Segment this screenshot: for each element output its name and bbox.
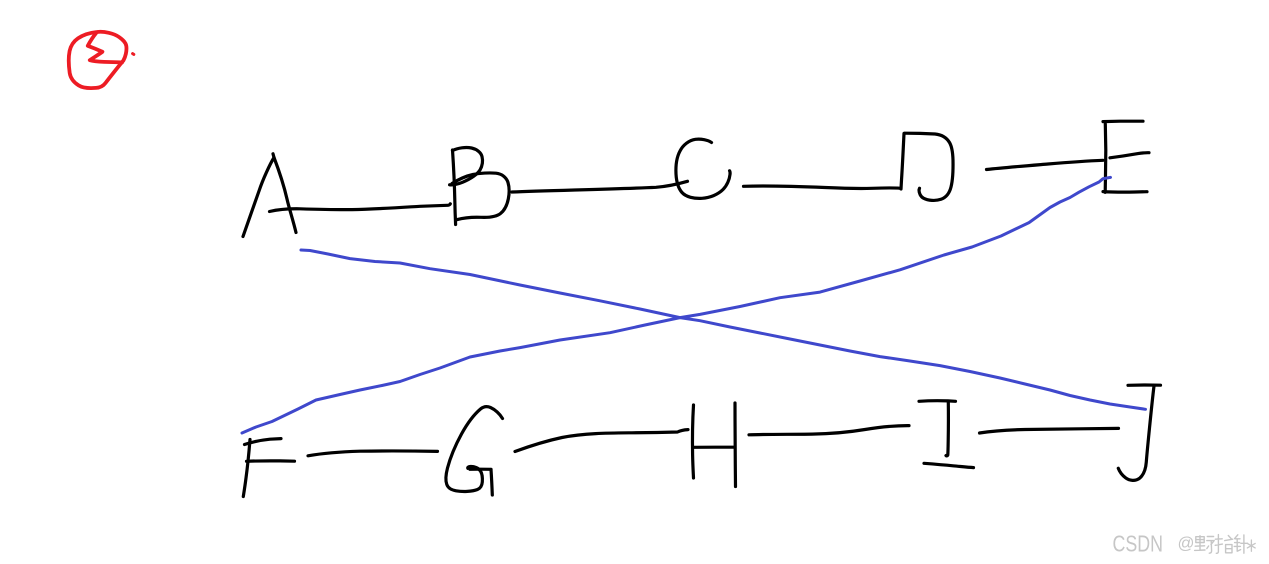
letter J [1118, 385, 1160, 480]
wire G-H [515, 430, 688, 452]
wire D-E [987, 160, 1104, 169]
watermark asterisk [1247, 540, 1255, 551]
letter D [901, 133, 953, 200]
red digit 2 [88, 33, 122, 62]
letter H [692, 403, 735, 487]
wire A-B [270, 204, 451, 212]
wire F-G [308, 451, 438, 456]
wire I-J [980, 428, 1119, 433]
blue curve F-to-E (ascending) [242, 177, 1111, 433]
letter C [676, 139, 730, 198]
watermark glyph zhi [1215, 535, 1233, 554]
svg-text:@: @ [1178, 535, 1195, 553]
svg-text:CSDN: CSDN [1113, 530, 1164, 556]
letter I [919, 401, 974, 468]
letter F [243, 439, 294, 497]
wire H-I [749, 426, 909, 435]
blue curve A-to-J (descending) [301, 250, 1146, 409]
red dot [133, 52, 134, 56]
watermark glyph zhen [1234, 535, 1247, 553]
letter G [446, 407, 503, 495]
letter A [243, 154, 296, 237]
letter E [1103, 121, 1149, 192]
letter B [450, 147, 509, 224]
watermark glyph ye [1195, 536, 1215, 554]
wire C-D [744, 186, 900, 189]
red doodle circle [69, 32, 134, 88]
wire B-C [512, 181, 688, 192]
watermark CSDN [1113, 530, 1195, 556]
